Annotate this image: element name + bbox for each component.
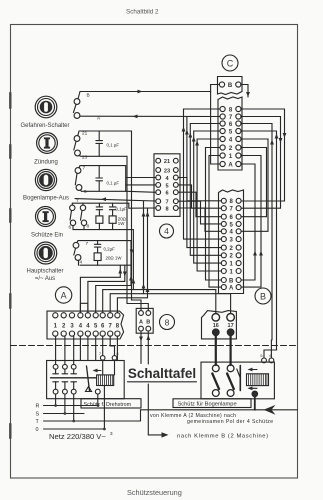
svg-text:4: 4 [86, 324, 90, 330]
svg-text:0,1 µF: 0,1 µF [107, 143, 120, 148]
svg-text:5: 5 [94, 324, 98, 330]
svg-text:Zündung: Zündung [34, 160, 58, 166]
svg-text:nach Klemme B (2 Maschine): nach Klemme B (2 Maschine) [177, 434, 269, 440]
svg-text:B: B [146, 319, 150, 325]
svg-text:7: 7 [99, 351, 101, 356]
svg-text:0,1µF: 0,1µF [116, 207, 128, 212]
svg-text:1W: 1W [118, 221, 125, 226]
svg-text:23: 23 [164, 168, 170, 174]
svg-text:1: 1 [229, 154, 233, 160]
svg-text:Schaltbild 2: Schaltbild 2 [126, 9, 159, 16]
svg-text:23: 23 [82, 155, 88, 160]
svg-text:B: B [87, 93, 90, 98]
svg-text:8: 8 [116, 324, 120, 330]
svg-text:Netz 220/380 V~: Netz 220/380 V~ [49, 432, 106, 441]
svg-text:6: 6 [69, 225, 72, 230]
svg-text:B: B [228, 83, 233, 89]
svg-text:gemeinsamen Pol der 4 Schütze: gemeinsamen Pol der 4 Schütze [187, 419, 274, 425]
svg-text:21: 21 [164, 159, 170, 165]
svg-text:2: 2 [230, 246, 234, 252]
svg-text:20Ω 1W: 20Ω 1W [106, 256, 123, 261]
svg-text:6: 6 [229, 122, 233, 128]
svg-text:16: 16 [213, 323, 219, 329]
svg-text:21: 21 [82, 131, 88, 136]
svg-text:5: 5 [229, 130, 233, 136]
svg-text:R: R [36, 404, 40, 410]
svg-text:17: 17 [228, 323, 234, 329]
svg-text:8: 8 [116, 351, 118, 356]
svg-text:6: 6 [101, 324, 105, 330]
svg-text:7: 7 [229, 115, 233, 121]
svg-text:8: 8 [165, 207, 168, 213]
svg-text:8: 8 [87, 224, 90, 229]
svg-text:3: 3 [70, 324, 74, 330]
svg-text:0,2µF: 0,2µF [104, 247, 116, 252]
svg-text:A: A [229, 286, 234, 292]
svg-text:Schütz für Bogenlampe: Schütz für Bogenlampe [178, 402, 237, 408]
svg-text:8: 8 [230, 199, 234, 205]
svg-text:Gefahren-Schalter: Gefahren-Schalter [20, 123, 69, 129]
svg-text:0: 0 [36, 427, 39, 433]
svg-text:4: 4 [229, 138, 233, 144]
svg-text:Hauptschalter: Hauptschalter [26, 269, 63, 275]
svg-text:T: T [36, 419, 40, 425]
svg-text:=/~ Aus: =/~ Aus [35, 276, 55, 282]
svg-text:4: 4 [165, 176, 169, 182]
svg-text:1: 1 [54, 324, 58, 330]
svg-text:6: 6 [165, 191, 168, 197]
svg-text:4: 4 [230, 230, 234, 236]
svg-text:2: 2 [229, 146, 233, 152]
svg-text:7: 7 [109, 324, 113, 330]
svg-text:0,1 µF: 0,1 µF [107, 181, 120, 186]
svg-text:5: 5 [165, 183, 168, 189]
svg-text:7: 7 [165, 200, 168, 206]
svg-text:6: 6 [269, 353, 271, 358]
svg-text:A: A [228, 163, 233, 169]
svg-text:8: 8 [229, 108, 233, 114]
svg-text:S: S [36, 412, 40, 418]
svg-text:Schalttafel: Schalttafel [128, 366, 196, 381]
svg-text:7: 7 [230, 207, 234, 213]
svg-text:4: 4 [79, 324, 83, 330]
svg-text:4: 4 [164, 226, 169, 236]
svg-text:Schützsteuerung: Schützsteuerung [127, 488, 182, 497]
svg-text:A: A [139, 319, 143, 325]
svg-text:B: B [260, 291, 266, 301]
svg-text:4: 4 [80, 260, 83, 265]
svg-text:A: A [61, 290, 67, 300]
svg-text:5: 5 [260, 353, 262, 358]
svg-text:5: 5 [84, 189, 87, 194]
svg-text:7: 7 [76, 198, 79, 203]
svg-text:1: 1 [230, 262, 234, 268]
svg-text:8: 8 [165, 317, 170, 327]
svg-text:Schütz f. Drehstrom: Schütz f. Drehstrom [84, 402, 132, 408]
svg-text:B: B [229, 278, 234, 284]
svg-text:Schütze Ein: Schütze Ein [31, 233, 63, 239]
svg-text:3: 3 [230, 238, 234, 244]
svg-text:2: 2 [62, 324, 66, 330]
svg-text:7: 7 [86, 241, 89, 246]
svg-text:3: 3 [110, 431, 113, 436]
svg-text:2: 2 [230, 254, 234, 260]
svg-text:C: C [227, 58, 234, 68]
svg-text:5: 5 [230, 222, 234, 228]
svg-text:Bogenlampe-Aus: Bogenlampe-Aus [23, 196, 69, 202]
svg-text:7: 7 [83, 166, 86, 171]
svg-text:1: 1 [230, 269, 234, 275]
svg-text:6: 6 [230, 215, 234, 221]
